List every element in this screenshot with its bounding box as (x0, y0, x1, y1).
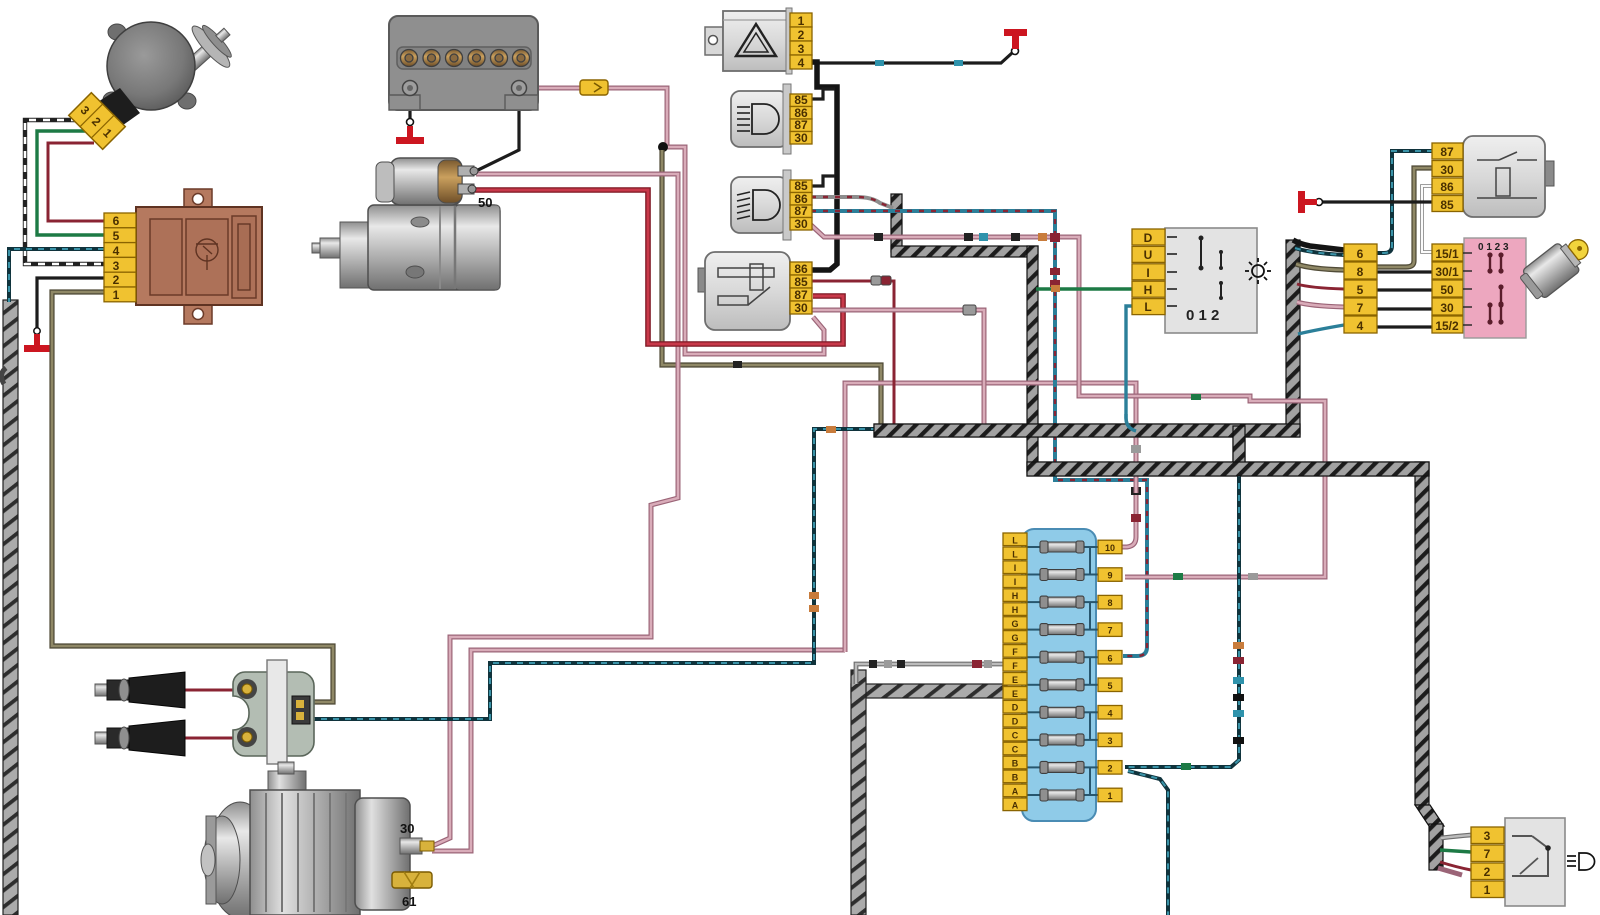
harness segment H (short link x=1240) (1233, 426, 1245, 474)
wire: light switch L teal hook over harness (1126, 414, 1136, 431)
svg-text:30: 30 (400, 821, 414, 836)
svg-text:3: 3 (113, 259, 120, 273)
wire marker on khaki feed (733, 361, 742, 368)
svg-text:5: 5 (1107, 681, 1112, 691)
svg-text:1: 1 (798, 14, 805, 28)
ground: battery (396, 119, 424, 145)
harness segment D (horizontal y=430) (874, 424, 1300, 437)
wires: connector column to ignition switch (black) (1377, 270, 1432, 273)
connector: distributor plug (yellow, rotated) (69, 93, 126, 150)
wire: module pin1 khaki down to ignition coil (52, 292, 333, 702)
svg-text:G: G (1011, 619, 1018, 629)
wire: fuse 2 feed dark teal from harness link (1125, 471, 1239, 767)
wire: light switch H green from harness C (1036, 287, 1133, 290)
svg-text:87: 87 (794, 204, 808, 218)
relay: ignition (main) relay (698, 252, 790, 330)
connector on dark red wire (871, 276, 891, 285)
wire: distributor to module pin5 (green) (37, 131, 104, 235)
svg-text:L: L (1144, 300, 1151, 314)
fuse box (1022, 529, 1096, 821)
svg-text:A: A (1012, 786, 1019, 796)
svg-text:4: 4 (798, 56, 805, 70)
wire: low-beam 86 gray-red into harness A (811, 197, 893, 208)
wire colour markers on pink feed (1191, 394, 1201, 400)
fuse 10 (1040, 541, 1084, 553)
spark plug 2 (95, 720, 185, 756)
svg-text:C: C (1012, 745, 1019, 755)
svg-text:4: 4 (113, 244, 120, 258)
svg-text:3: 3 (798, 42, 805, 56)
wire marker green on fuse2 wire (1181, 763, 1191, 770)
wire markers on teal-red wire (1050, 268, 1060, 275)
wire: ignition module pin2 to ground (black) (37, 278, 104, 328)
fuse 4 (1040, 706, 1084, 718)
harness segment F (horizontal y=466) (1027, 462, 1429, 476)
svg-text:L: L (1012, 549, 1018, 559)
fuse box internals: fuses and links (1026, 540, 1098, 802)
harness segment B (horizontal y=251) (891, 246, 1038, 257)
connector: column 6 8 5 7 4 (1344, 244, 1377, 333)
svg-text:10: 10 (1105, 543, 1115, 553)
svg-text:2: 2 (1107, 763, 1112, 773)
svg-text:7: 7 (1484, 847, 1491, 861)
svg-text:3: 3 (1107, 736, 1112, 746)
connector: low beam relay pins (790, 179, 812, 231)
svg-text:30: 30 (794, 301, 808, 315)
svg-text:I: I (1014, 577, 1017, 587)
fuse 3 (1040, 734, 1084, 746)
connector: right relay pins (1432, 143, 1463, 212)
connector: light switch pins D U I H L (1132, 229, 1165, 315)
harness D overlay (874, 424, 1300, 437)
wire: elbow low-beam relay 85 to trunk (811, 176, 835, 186)
svg-text:H: H (1012, 591, 1019, 601)
wire: coil + to harness D (teal dashed) (309, 429, 876, 719)
starter motor (312, 158, 500, 290)
svg-text:6: 6 (1107, 653, 1112, 663)
svg-text:H: H (1012, 605, 1019, 615)
wire markers on coil feed (809, 592, 819, 599)
svg-text:61: 61 (402, 894, 416, 909)
svg-text:H: H (1144, 283, 1153, 297)
harness segment C (vertical x=1035) (1027, 246, 1038, 472)
wire: pink y=650 from alternator 30 to fuse feed riser (432, 650, 845, 851)
wire: elbow high-beam relay 85 to trunk (811, 89, 835, 99)
harness H overlay (1233, 426, 1245, 474)
ground: ignition module (24, 328, 51, 352)
svg-text:D: D (1012, 717, 1019, 727)
connector: inline yellow on battery wire (580, 80, 608, 95)
ignition module (switching unit) (136, 189, 262, 324)
svg-text:4: 4 (1107, 708, 1112, 718)
harness F overlay (1027, 462, 1429, 476)
svg-text:9: 9 (1107, 571, 1112, 581)
fuse 1 (1040, 789, 1084, 801)
svg-text:1: 1 (1484, 883, 1491, 897)
connector: fuse box left pins (1003, 533, 1027, 811)
wire: battery + to junction (pink) (524, 88, 667, 145)
relay: high beam (731, 84, 791, 154)
wire: relay5 87 teal-black to connector pin6 (1377, 151, 1433, 253)
harness segment E (vertical x=1293 to ignition connector) (1286, 240, 1300, 434)
wire: battery - to ground (black) (408, 92, 411, 120)
alternator (201, 762, 434, 915)
fuse 5 (1040, 679, 1084, 691)
svg-text:1: 1 (1107, 791, 1112, 801)
node: junction battery/alternator (658, 142, 668, 152)
svg-text:85: 85 (1440, 198, 1454, 212)
wire: relay5 86 white to ignition 15/1 (1422, 186, 1433, 252)
connector: ignition module pins 6..1 (104, 213, 136, 302)
wire: low-beam relay 30 pink y237 to x1079 down then to fuse 9 loop (811, 225, 1325, 577)
wire: low-beam 87 teal-red to x1053 down to harness D (811, 211, 1147, 656)
ignition coil (233, 660, 314, 764)
svg-text:4: 4 (1357, 319, 1364, 333)
wire: light switch L teal down into harness D (1126, 306, 1136, 430)
svg-text:50: 50 (478, 195, 492, 210)
wire: fuse 2 branch down to bottom edge (1128, 771, 1168, 915)
svg-text:E: E (1012, 689, 1018, 699)
svg-text:6: 6 (1357, 247, 1364, 261)
connector: hazard pins 1-4 (790, 13, 812, 70)
wire: distributor to module pin3 (black-white striped) (25, 120, 104, 264)
svg-text:F: F (1012, 661, 1018, 671)
svg-text:30: 30 (1440, 301, 1454, 315)
svg-text:85: 85 (794, 275, 808, 289)
svg-text:2: 2 (1484, 865, 1491, 879)
wire: starter solenoid to pink vertical then alternator 30 (430, 174, 678, 847)
svg-text:F: F (1012, 647, 1018, 657)
wire markers on fuse 10 feed (1131, 445, 1141, 453)
wire: riser x=845 up, over to fuse 10 (845, 383, 1136, 652)
connector: main relay pins (790, 262, 812, 315)
wire: starter motor to ignition relay 87 (red) (472, 190, 843, 344)
svg-text:3: 3 (1484, 829, 1491, 843)
svg-text:15/2: 15/2 (1435, 319, 1459, 333)
svg-text:5: 5 (113, 229, 120, 243)
fuse 2 (1040, 761, 1084, 773)
svg-text:0 1 2 3: 0 1 2 3 (1478, 242, 1509, 253)
wire: junction to ignition relay 30 (pink) (663, 147, 824, 354)
wire: relay5 85 black to ground (1322, 200, 1433, 203)
svg-text:D: D (1012, 703, 1019, 713)
svg-text:30: 30 (794, 217, 808, 231)
svg-text:86: 86 (794, 262, 808, 276)
svg-text:6: 6 (113, 214, 120, 228)
wire: spark plug 1 to coil (dark red) (185, 689, 242, 692)
svg-text:85: 85 (794, 179, 808, 193)
fuse 6 (1040, 651, 1084, 663)
svg-text:30: 30 (794, 131, 808, 145)
relay: hazard flasher (705, 8, 792, 74)
svg-text:87: 87 (794, 288, 808, 302)
svg-text:B: B (1012, 772, 1019, 782)
svg-text:D: D (1144, 231, 1153, 245)
wire: relay5 30 khaki to connector pin8 (1377, 168, 1433, 267)
wire markers on fuse 2 feed (1233, 642, 1244, 649)
wire marker on green wire (1051, 285, 1060, 292)
fuse 7 (1040, 624, 1084, 636)
spark plug 1 (95, 672, 185, 708)
wire: main relay 30 pink to x984 down to harness D (811, 310, 984, 424)
svg-text:30/1: 30/1 (1435, 265, 1459, 279)
svg-text:7: 7 (1107, 626, 1112, 636)
svg-text:15/1: 15/1 (1435, 247, 1459, 261)
svg-text:U: U (1144, 248, 1153, 262)
wires: harness G fan to rear switch pins (1441, 835, 1471, 838)
svg-text:B: B (1012, 759, 1019, 769)
svg-text:I: I (1146, 266, 1149, 280)
ignition switch (contact unit, pink) (1463, 238, 1526, 338)
harness segment J (fuse box feed, gray striped) (851, 670, 1007, 915)
connector: fuse box right pins (1098, 540, 1122, 802)
wire: fuse10 pink over teal crossing (1134, 477, 1139, 493)
svg-text:87: 87 (794, 118, 808, 132)
rear lamp switch (bottom right) (1505, 818, 1565, 906)
connector: rear switch pins 3 7 2 1 (1471, 827, 1504, 898)
svg-text:85: 85 (794, 93, 808, 107)
wire: distributor to module pin6 (dark red) (48, 143, 104, 221)
wire: hazard pin4 to ground (black) (811, 53, 1012, 63)
relay: low beam (731, 170, 791, 240)
svg-text:I: I (1014, 563, 1017, 573)
ground: relay5 (1298, 191, 1323, 213)
wire markers on fuse 9 feed (1173, 573, 1183, 580)
wire markers on gray feed (869, 660, 877, 668)
wire: spark plug 2 to coil (dark red) (185, 737, 242, 740)
wires: harness E fan to connector pins (1293, 240, 1344, 250)
svg-text:G: G (1011, 633, 1018, 643)
svg-text:E: E (1012, 675, 1018, 685)
wire: module pin4 to left harness (teal dashed) (9, 249, 104, 302)
svg-text:86: 86 (1440, 180, 1454, 194)
svg-text:5: 5 (1357, 283, 1364, 297)
svg-text:50: 50 (1440, 283, 1454, 297)
svg-text:A: A (1012, 800, 1019, 810)
wire markers on ground wire (875, 60, 884, 66)
connector: ignition switch pins (1432, 244, 1463, 333)
fuse 8 (1040, 596, 1084, 608)
svg-text:L: L (1012, 535, 1018, 545)
wire: black trunk hazard pin4 / relay 85s / main relay 86 (811, 62, 837, 270)
svg-text:7: 7 (1357, 301, 1364, 315)
svg-text:87: 87 (1440, 145, 1454, 159)
svg-text:2: 2 (798, 28, 805, 42)
svg-text:8: 8 (1107, 598, 1112, 608)
connector: high beam relay pins (790, 93, 812, 145)
light switch unit (1165, 228, 1257, 333)
svg-text:C: C (1012, 731, 1019, 741)
svg-text:0 1 2: 0 1 2 (1186, 307, 1219, 324)
wire: junction down khaki to y365 then to harness D (662, 150, 881, 425)
fuse 9 (1040, 569, 1084, 581)
relay: rear window / right relay (1463, 136, 1554, 217)
svg-text:2: 2 (113, 273, 120, 287)
ground: hazard relay (1004, 29, 1027, 55)
harness segment A (relay area vertical) (891, 194, 902, 252)
harness segment K (left edge gray striped) (1, 300, 18, 915)
icon: lights symbol next to switch (1245, 258, 1271, 284)
svg-text:8: 8 (1357, 265, 1364, 279)
icon: lamp next to rear switch (1567, 853, 1595, 870)
wire: fuse box F gray wire (856, 664, 1007, 684)
battery (389, 16, 538, 110)
wire: main relay 85 dark red to x894 down to harness D (811, 281, 894, 424)
harness segment G (vertical x=1422 down to rear lamp switch) (1415, 462, 1444, 870)
ignition key icon (1517, 229, 1597, 302)
wire: battery + to starter solenoid (black) (478, 92, 519, 170)
svg-text:30: 30 (1440, 163, 1454, 177)
svg-text:1: 1 (113, 288, 120, 302)
distributor (ignition distributor) (85, 12, 245, 140)
